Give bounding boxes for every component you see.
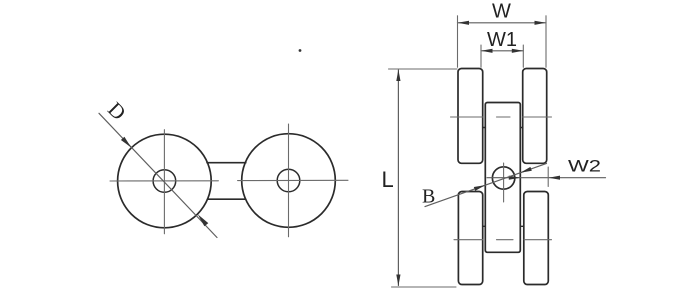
svg-text:W: W (492, 1, 511, 23)
speck artifact (299, 49, 302, 52)
B arrowhead right (520, 167, 532, 173)
top-right wheel (top view) (523, 69, 547, 164)
L bottom extension line (392, 286, 457, 288)
W2 inner line with right arrow (487, 177, 606, 179)
W2 outer arrowhead (549, 176, 561, 180)
W1 left arrowhead (481, 49, 493, 53)
W right arrowhead (535, 21, 547, 25)
top boss tick right (520, 127, 522, 129)
svg-text:W2: W2 (568, 157, 601, 176)
bottom-right wheel (top view) (524, 192, 549, 285)
vertical centerline of right circle (288, 124, 290, 237)
W left extension line (457, 16, 459, 68)
L bottom arrowhead (396, 275, 400, 287)
B arrowhead left (474, 185, 486, 191)
W left arrowhead (458, 21, 470, 25)
top-left wheel (top view) (458, 69, 483, 164)
bottom boss tick right (520, 225, 524, 227)
bottom axle centerline left segment (454, 239, 483, 241)
L top extension line (389, 68, 458, 70)
dimension B diagonal leader (425, 163, 547, 206)
W dimension line (458, 22, 547, 24)
top axle centerline left segment (451, 116, 483, 118)
W right extension line (545, 16, 547, 68)
W1 right extension line (522, 45, 524, 67)
svg-text:D: D (103, 97, 131, 125)
horizontal centerline left segment (110, 180, 218, 182)
dimension D upper arrowhead (121, 137, 131, 148)
W2 inner arrowhead (509, 176, 521, 180)
svg-text:B: B (422, 186, 435, 208)
wheel front-view left circle (118, 134, 212, 228)
W2 extension tick (547, 167, 549, 187)
vertical centerline of left circle (163, 130, 165, 234)
bottom axle centerline right segment (524, 239, 552, 241)
connector bottom line (208, 198, 246, 200)
wheel front-view right circle (242, 134, 336, 228)
top boss tick left (483, 127, 486, 129)
W1 right arrowhead (512, 49, 524, 53)
dimension D diagonal line (99, 113, 217, 237)
L dimension line (397, 70, 399, 286)
dimension D lower arrowhead (198, 214, 209, 226)
center circle vertical crosshair (503, 163, 505, 202)
central body (top view) (485, 103, 520, 253)
bottom boss tick left (483, 225, 486, 227)
top axle centerline right segment (523, 116, 552, 118)
connector top line (207, 162, 246, 164)
W1 dimension line (481, 50, 523, 52)
L top arrowhead (396, 70, 400, 82)
W1 left extension line (480, 45, 482, 67)
hub of right circle (277, 169, 300, 192)
bottom axle centerline center dash (497, 239, 514, 241)
svg-text:L: L (382, 167, 394, 192)
center circle (top view) (492, 167, 514, 189)
svg-text:W1: W1 (487, 29, 517, 51)
top axle centerline center dash (497, 116, 511, 118)
hub of left circle (153, 170, 176, 193)
horizontal centerline right segment (238, 179, 348, 181)
bottom-left wheel (top view) (458, 192, 482, 285)
